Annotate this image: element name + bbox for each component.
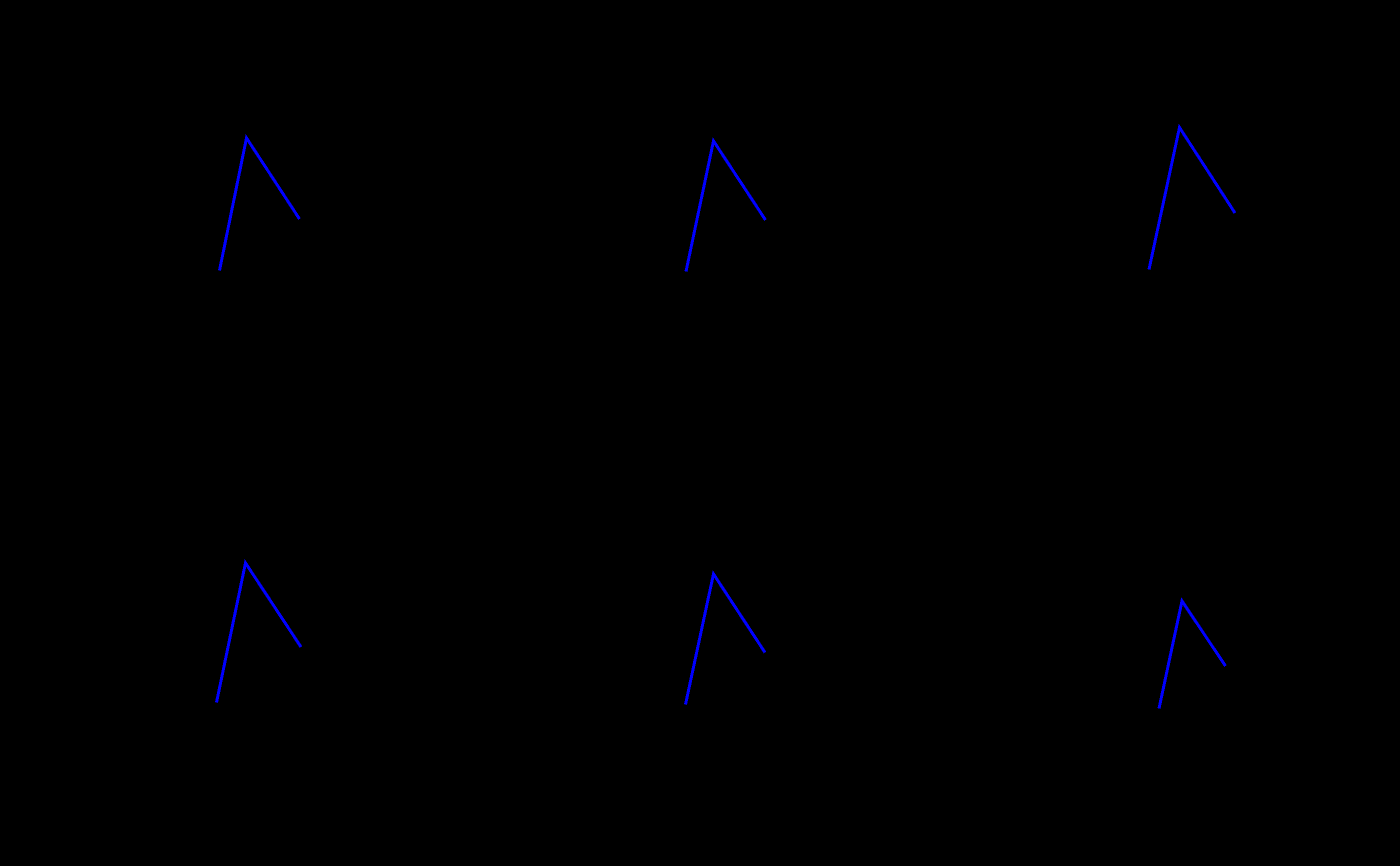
panel 1 trace (top-left) xyxy=(220,138,300,271)
panel 4 trace (bottom-left) xyxy=(217,563,302,703)
panel 6 trace (bottom-right) xyxy=(1159,601,1226,709)
panel 2 trace (top-middle) xyxy=(686,141,766,272)
panel 3 trace (top-right) xyxy=(1149,128,1235,270)
panel 5 trace (bottom-middle) xyxy=(686,574,766,705)
